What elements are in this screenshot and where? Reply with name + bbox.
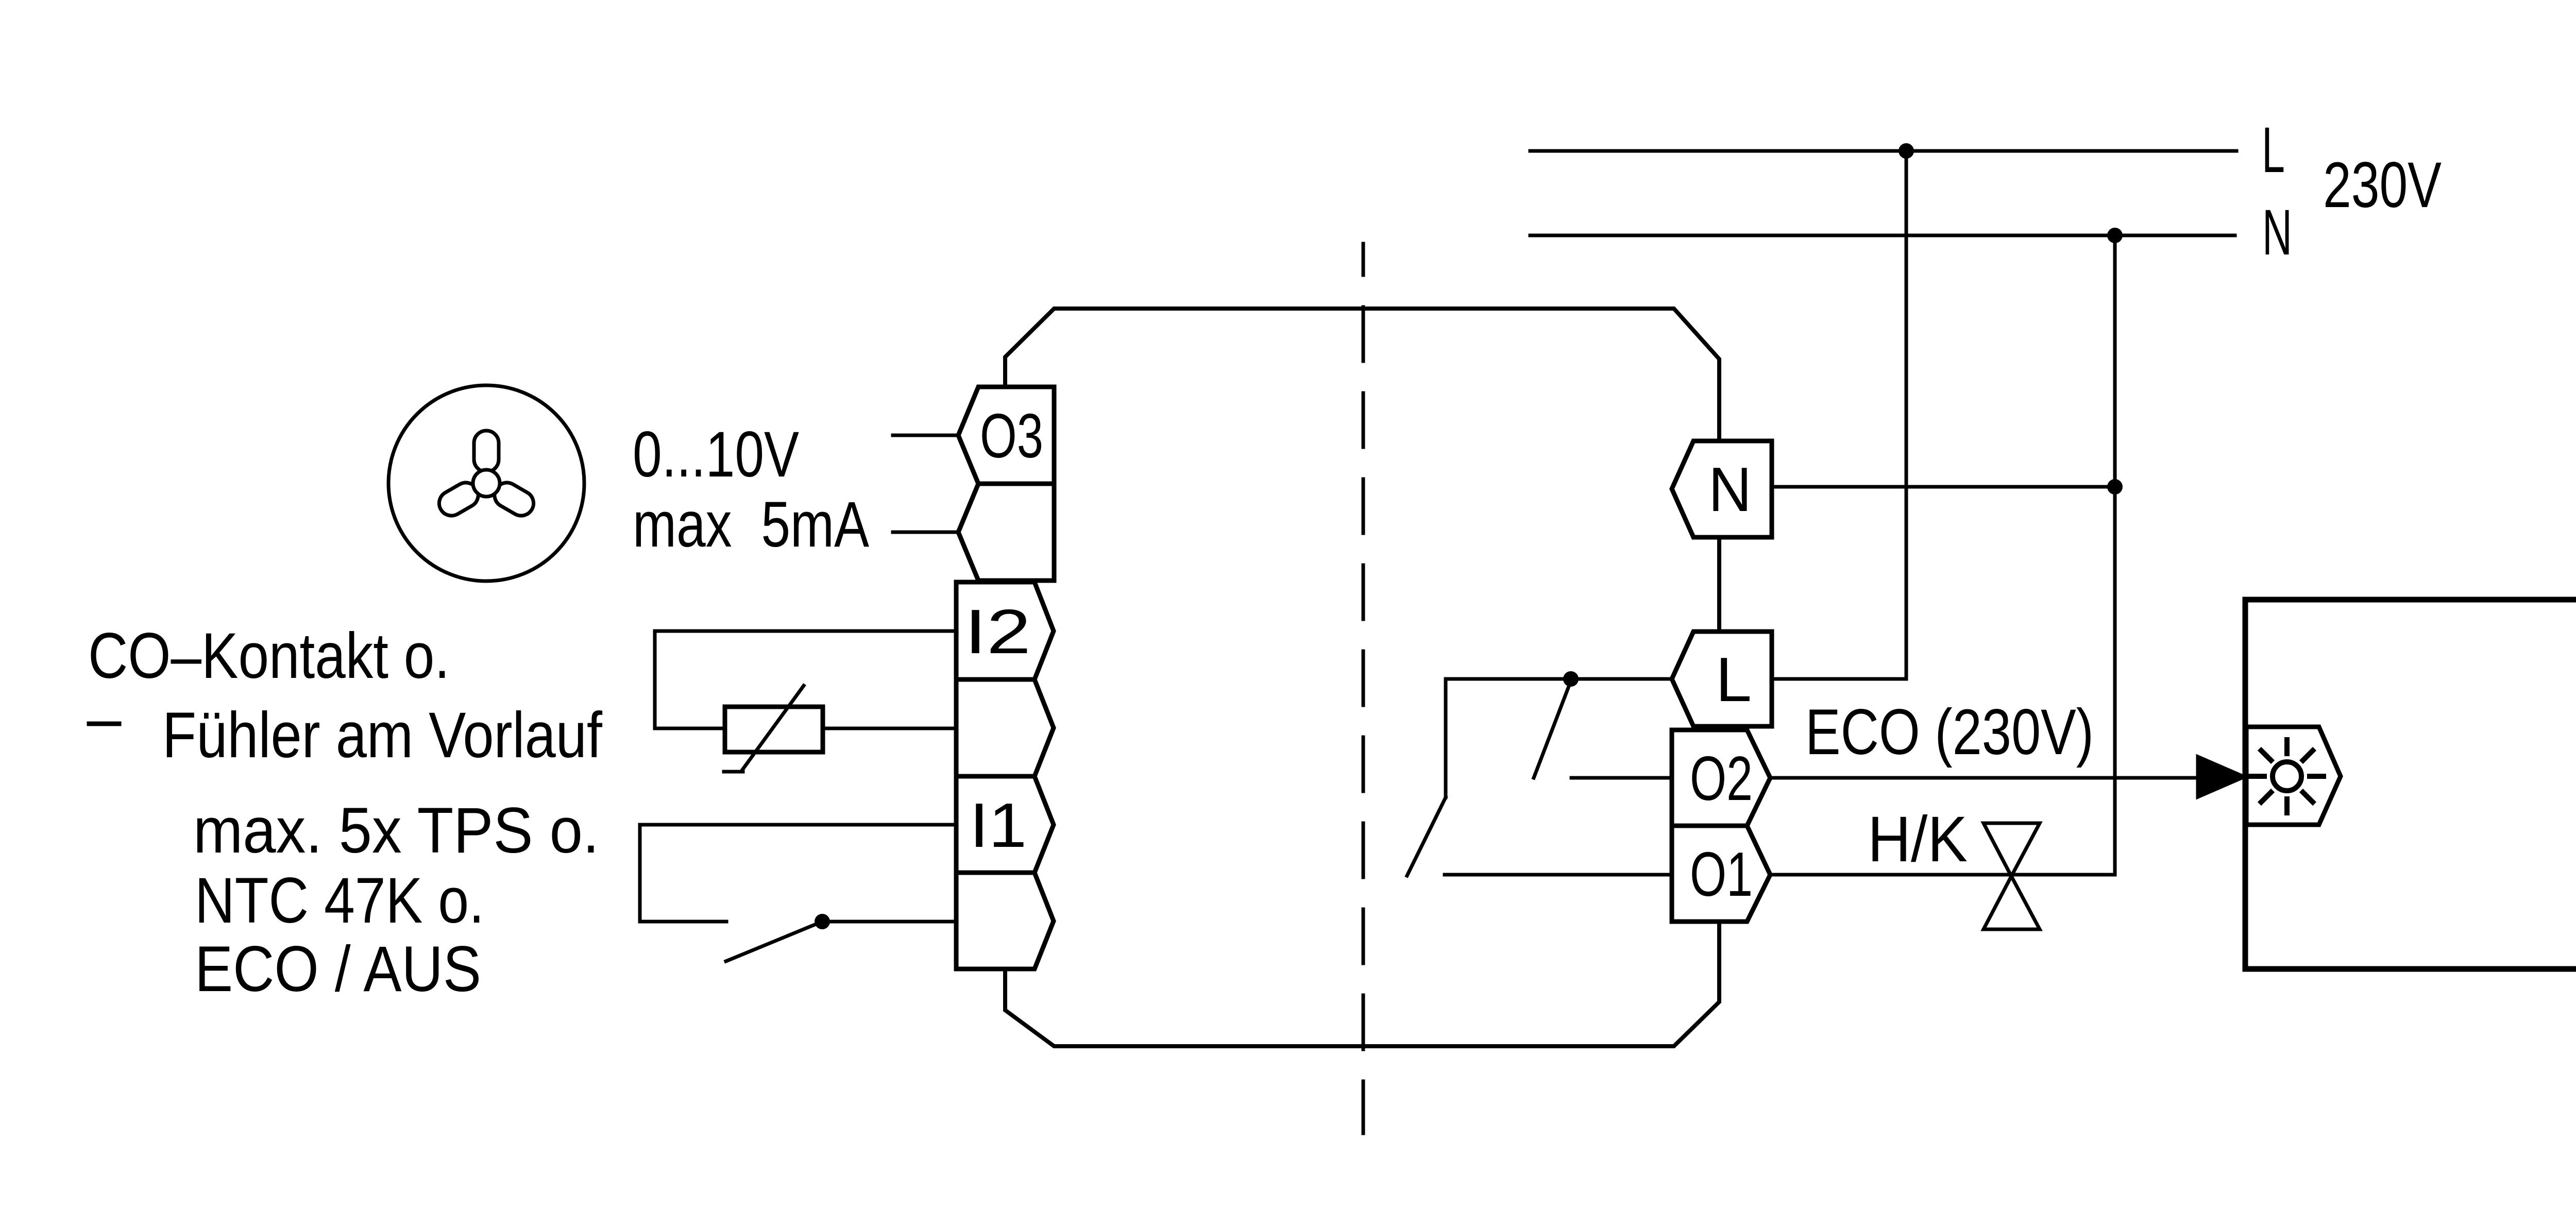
svg-text:230V: 230V [2323,149,2442,221]
svg-text:0...10V: 0...10V [633,419,799,490]
svg-text:N: N [2262,197,2292,268]
wire O1 to valve to N vertical [1770,873,2115,877]
lamp box bottom edge [2245,966,2576,972]
terminal input pin 4 cell [956,873,1054,969]
terminal output pin 2 cell [958,484,1054,581]
fan circle [388,385,584,581]
node ECO switch junction [815,914,830,929]
terminal input pin 2 cell [956,679,1054,776]
device box outline right middle [1717,537,1721,632]
valve H/K bottom triangle [1984,876,2040,929]
fan blade lower right [490,478,538,520]
svg-text:Fühler am Vorlauf: Fühler am Vorlauf [162,700,602,771]
terminal I-pins left edge [954,582,959,969]
wire ECO switch to input pin 4 [822,920,956,924]
terminal N pentagon [1672,441,1772,537]
thermistor body [725,707,823,752]
svg-text:L: L [1716,644,1752,714]
wire internal to O2 [1571,776,1672,780]
wire I2 to loop [655,631,956,728]
svg-text:O2: O2 [1690,743,1753,813]
node N-terminal junction [2107,479,2123,495]
fan blade top [474,431,499,472]
arrow to lamp [2198,757,2244,797]
terminal L pentagon [1672,632,1772,726]
minus dash before Fuehler [89,722,119,726]
wire from L bus down to terminal L [1772,151,1906,679]
terminal O-pins right edge [1052,387,1057,581]
lamp pentagon [2246,727,2341,825]
wire L bus line [1530,149,2236,153]
svg-text:I1: I1 [970,790,1027,860]
terminal O2 pentagon [1672,730,1770,826]
node L-bus junction [1899,143,1914,159]
wire I1 to loop [640,825,956,922]
fan blade lower left [435,478,483,520]
wire thermistor to input pin 2 [823,727,956,730]
switch to O1 blade [1407,797,1446,876]
fan hub [473,470,500,497]
svg-text:H/K: H/K [1868,804,1968,875]
wire internal to O1 [1445,873,1672,877]
wire terminal N to junction [1772,485,2115,489]
terminal I1 cell [956,776,1054,873]
svg-text:NTC 47K o.: NTC 47K o. [195,865,484,936]
dashed separation line [1362,244,1365,1133]
terminal I2 cell [956,582,1054,679]
svg-text:I2: I2 [964,597,1031,667]
svg-text:max. 5x TPS o.: max. 5x TPS o. [193,795,599,866]
device box outline bottom [1005,922,1719,1046]
svg-text:N: N [1708,454,1752,524]
terminal O3 cell [958,387,1054,484]
svg-text:CO–Kontakt o.: CO–Kontakt o. [88,620,450,692]
svg-text:O3: O3 [980,401,1043,471]
svg-text:O1: O1 [1690,839,1753,909]
switch ECO/AUS blade [726,922,822,961]
wire L terminal to internal node [1446,679,1672,797]
node internal L junction [1563,671,1579,687]
node N-bus junction [2107,228,2123,243]
wire from N bus down to valve line [2113,235,2117,875]
wire N bus line [1530,234,2235,237]
terminal O1 pentagon [1672,826,1770,922]
lamp sun circle [2273,762,2301,791]
svg-text:ECO (230V): ECO (230V) [1805,696,2094,768]
lamp box left edge [2243,600,2248,969]
valve H/K top triangle [1984,823,2040,876]
device box outline top [1005,309,1719,441]
svg-text:L: L [2262,114,2285,186]
wire stub output pin 2 [893,531,958,534]
thermistor diagonal [724,686,804,772]
wire O2 to lamp arrow [1770,776,2199,780]
wire stub O3 [893,434,958,437]
switch to O2 blade [1534,681,1571,778]
lamp sun rays [2250,740,2324,813]
lamp box top edge [2245,597,2576,603]
svg-text:ECO / AUS: ECO / AUS [195,933,481,1005]
svg-text:max 5mA: max 5mA [633,489,870,560]
